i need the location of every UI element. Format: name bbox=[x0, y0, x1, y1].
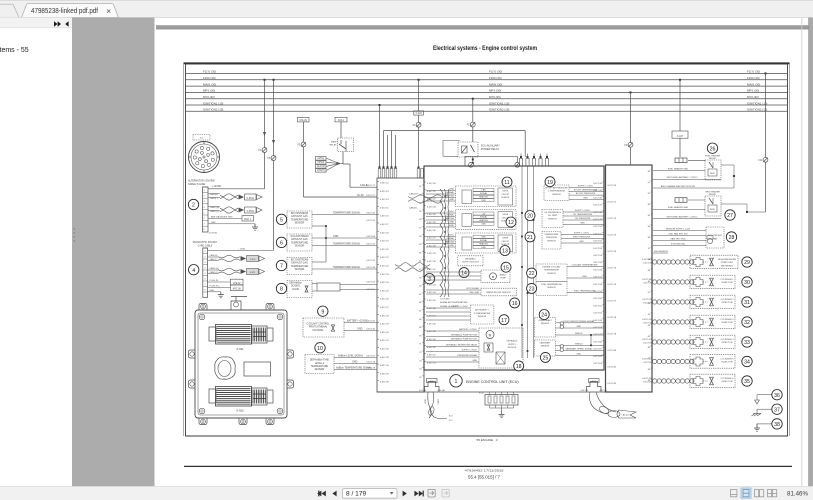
svg-text:GND: GND bbox=[352, 360, 358, 363]
can twist lower bbox=[395, 263, 430, 272]
svg-text:AdBlue LEVEL SIGNAL: AdBlue LEVEL SIGNAL bbox=[338, 354, 364, 357]
svg-text:VPS-B: VPS-B bbox=[317, 162, 324, 164]
svg-text:SENSOR: SENSOR bbox=[478, 316, 487, 318]
svg-text:DIAGNOSTIC SOCKET: DIAGNOSTIC SOCKET bbox=[193, 241, 218, 244]
svg-text:6.617-12: 6.617-12 bbox=[380, 183, 389, 185]
svg-text:6.617-46: 6.617-46 bbox=[427, 308, 436, 310]
svg-text:FUEL TEMPERATURE: FUEL TEMPERATURE bbox=[541, 283, 562, 286]
ecu module top lugs bbox=[199, 304, 207, 311]
svg-text:SWITCHED BATTERY +12VDC: SWITCHED BATTERY +12VDC bbox=[666, 215, 697, 218]
svg-text:86/85: 86/85 bbox=[710, 173, 715, 175]
svg-text:6.617: 6.617 bbox=[479, 392, 485, 394]
ecu top pin row bbox=[519, 159, 522, 167]
svg-text:HEATING: HEATING bbox=[445, 195, 454, 198]
callout 35 bbox=[742, 376, 752, 386]
svg-text:X-912: X-912 bbox=[236, 409, 244, 413]
svg-text:6.617-44: 6.617-44 bbox=[427, 292, 436, 294]
svg-text:F1(Y) (30): F1(Y) (30) bbox=[203, 70, 216, 74]
svg-text:TEMPERATURE: TEMPERATURE bbox=[311, 365, 329, 368]
wire block 24 row bbox=[556, 327, 605, 329]
svg-text:6.617-60: 6.617-60 bbox=[593, 298, 602, 300]
wire block 19 row bbox=[569, 199, 604, 201]
svg-text:PUMP: PUMP bbox=[500, 277, 506, 279]
svg-text:6.617-94: 6.617-94 bbox=[643, 362, 652, 364]
ecu sensor block 20 bbox=[542, 210, 563, 228]
svg-text:6.617-47: 6.617-47 bbox=[427, 316, 436, 318]
wire fuse to relay1 bbox=[688, 159, 705, 161]
svg-text:PRESSURE: PRESSURE bbox=[546, 237, 558, 239]
svg-text:6.617-19: 6.617-19 bbox=[380, 241, 389, 243]
svg-text:6.617-M: 6.617-M bbox=[581, 390, 589, 392]
svg-text:HTR SIGNAL: HTR SIGNAL bbox=[467, 287, 480, 290]
svg-text:6.617-25: 6.617-25 bbox=[380, 290, 389, 292]
callout 28 bbox=[726, 232, 736, 242]
sensor box 7 bbox=[287, 258, 312, 275]
svg-text:HEATING: HEATING bbox=[445, 241, 454, 244]
svg-text:+ 15/54: + 15/54 bbox=[238, 248, 246, 250]
svg-text:4: 4 bbox=[204, 268, 205, 270]
fuse F-A bbox=[262, 148, 267, 153]
ecu module outline bbox=[195, 310, 287, 418]
connector X-911 bbox=[209, 325, 273, 345]
layout icon continuous selected bbox=[741, 488, 751, 498]
svg-text:6.617-40: 6.617-40 bbox=[366, 329, 375, 331]
ecu sensor block 19 bbox=[544, 185, 569, 201]
svg-text:MPS (30): MPS (30) bbox=[747, 89, 759, 93]
ecu module bottom lugs bbox=[199, 418, 207, 425]
svg-text:4-97 (A): 4-97 (A) bbox=[600, 389, 608, 392]
svg-text:6.617-76: 6.617-76 bbox=[608, 284, 617, 286]
svg-text:6.617-54: 6.617-54 bbox=[593, 255, 602, 257]
pump motor M bbox=[490, 273, 497, 280]
ecu connector box B bbox=[606, 165, 653, 392]
svg-text:CARD CABLE: CARD CABLE bbox=[198, 244, 213, 247]
callout 4 bbox=[189, 265, 199, 275]
svg-text:GND: GND bbox=[481, 224, 486, 226]
svg-text:MT3 (30): MT3 (30) bbox=[489, 95, 501, 99]
signal ground node 37 bbox=[757, 408, 772, 410]
ecu sensor block 25 bbox=[535, 340, 556, 356]
svg-text:6.617-68: 6.617-68 bbox=[593, 356, 602, 358]
svg-text:SENSOR: SENSOR bbox=[541, 323, 550, 325]
svg-text:DEF/AdBlue: DEF/AdBlue bbox=[506, 340, 518, 343]
svg-text:6.617-113: 6.617-113 bbox=[642, 339, 652, 341]
svg-text:6.617-39: 6.617-39 bbox=[366, 267, 375, 269]
svg-text:CYLINDER 3: CYLINDER 3 bbox=[721, 319, 735, 321]
callout 10 bbox=[315, 343, 325, 353]
svg-text:Electrical systems - Engine co: Electrical systems - Engine control syst… bbox=[433, 45, 537, 52]
toolbar history fwd icon bbox=[442, 489, 449, 497]
svg-text:KL-30: KL-30 bbox=[357, 194, 364, 197]
callout 29 bbox=[742, 257, 752, 267]
svg-text:DEF/AdBlue: DEF/AdBlue bbox=[465, 258, 477, 261]
svg-text:6.617-13: 6.617-13 bbox=[380, 191, 389, 193]
callout 13 bbox=[500, 246, 510, 256]
svg-text:6.617-17: 6.617-17 bbox=[380, 224, 389, 226]
wire block 20 row bbox=[563, 219, 604, 221]
svg-text:8 / 179: 8 / 179 bbox=[346, 491, 366, 498]
svg-text:55.4 [55.015] / 7: 55.4 [55.015] / 7 bbox=[468, 475, 500, 481]
toolbar first page button bbox=[317, 491, 326, 497]
svg-text:CYLINDER 6: CYLINDER 6 bbox=[721, 378, 735, 380]
ecu connector box A bbox=[377, 178, 424, 392]
svg-text:6.617-29: 6.617-29 bbox=[380, 324, 389, 326]
svg-text:28: 28 bbox=[729, 235, 735, 241]
svg-text:6.617-62: 6.617-62 bbox=[593, 313, 602, 315]
svg-text:SENSOR: SENSOR bbox=[547, 273, 556, 275]
svg-text:6.617-31: 6.617-31 bbox=[427, 191, 436, 193]
svg-text:11: 11 bbox=[504, 180, 509, 186]
arrow tap A bbox=[263, 132, 266, 136]
svg-text:SWITCHED BATTERY +12VDC: SWITCHED BATTERY +12VDC bbox=[666, 176, 697, 179]
wire block 12 row bbox=[426, 223, 456, 225]
svg-text:6.617-72: 6.617-72 bbox=[608, 218, 617, 220]
sensor box 6 bbox=[287, 234, 312, 251]
svg-text:6.617-65: 6.617-65 bbox=[593, 334, 602, 336]
document pane top gap bar bbox=[156, 25, 809, 29]
arrow tap B bbox=[272, 140, 275, 144]
svg-text:SUPPLY +5VDC: SUPPLY +5VDC bbox=[578, 186, 594, 188]
gray divider strip bbox=[72, 18, 155, 487]
svg-text:6.617-32: 6.617-32 bbox=[366, 321, 375, 323]
svg-text:6.617-55: 6.617-55 bbox=[593, 262, 602, 264]
wire block 15 rows bbox=[426, 271, 481, 273]
sensor 8 valve body bbox=[317, 283, 340, 291]
circular connector X-1 bbox=[189, 135, 220, 173]
fuse grid heater bbox=[675, 198, 687, 203]
heater symbol bbox=[496, 352, 505, 364]
svg-text:MAIN (30): MAIN (30) bbox=[203, 82, 216, 86]
svg-text:SIGNAL: SIGNAL bbox=[480, 192, 488, 195]
svg-text:& TEMPERATURE: & TEMPERATURE bbox=[474, 312, 491, 315]
svg-text:ENGINE COOLANT: ENGINE COOLANT bbox=[543, 266, 562, 269]
svg-text:B/A UPSTREAM: B/A UPSTREAM bbox=[291, 212, 308, 215]
wire block 12 row bbox=[426, 216, 456, 218]
sensor box 5 bbox=[287, 211, 312, 228]
svg-text:GND: GND bbox=[579, 241, 584, 243]
ecu module corner bolts bbox=[199, 314, 205, 320]
svg-text:HIGH PRESSURE: HIGH PRESSURE bbox=[718, 259, 737, 261]
wire block 13 row bbox=[426, 236, 456, 238]
svg-text:DEF/AdBlue TANK: DEF/AdBlue TANK bbox=[310, 359, 330, 362]
callout 38 bbox=[772, 419, 782, 429]
left bookmarks panel bbox=[0, 18, 72, 487]
ecu module side lugs bbox=[189, 350, 196, 358]
svg-text:TEMPERATURE: TEMPERATURE bbox=[544, 269, 560, 272]
svg-text:6.617-57: 6.617-57 bbox=[593, 277, 602, 279]
bus wire MPS (30) bbox=[186, 91, 788, 93]
toolbar next button bbox=[403, 491, 407, 497]
svg-text:6.617-43: 6.617-43 bbox=[427, 284, 436, 286]
wire block 12 row bbox=[426, 212, 456, 214]
wire block 23 row bbox=[567, 292, 604, 294]
svg-text:OIL PRESSURE &: OIL PRESSURE & bbox=[544, 212, 561, 214]
svg-text:47936452 17/11/2015: 47936452 17/11/2015 bbox=[465, 469, 504, 473]
connector 4 strip bbox=[203, 248, 208, 297]
ecu internal block 18 def supply bbox=[479, 328, 523, 368]
svg-text:GND: GND bbox=[576, 353, 581, 355]
svg-text:6.617-19: 6.617-19 bbox=[366, 368, 375, 370]
svg-text:TEMPERATURE SIGNAL: TEMPERATURE SIGNAL bbox=[333, 243, 361, 246]
callout 2 bbox=[188, 199, 198, 209]
connector X-97 plug bbox=[587, 382, 602, 393]
svg-text:47985238-linked pdf.pdf: 47985238-linked pdf.pdf bbox=[31, 6, 99, 15]
drawing frame bbox=[186, 64, 788, 436]
svg-text:F100 (30): F100 (30) bbox=[747, 76, 760, 80]
wire block 12 row bbox=[426, 226, 456, 228]
callout 25 bbox=[540, 352, 550, 362]
svg-text:6.617-53: 6.617-53 bbox=[366, 282, 375, 284]
wire relay1 right bbox=[721, 164, 734, 166]
svg-text:HOUSING: HOUSING bbox=[313, 330, 324, 332]
svg-text:BATTERY +12VDC: BATTERY +12VDC bbox=[347, 319, 368, 322]
speed sensor symbol bbox=[707, 238, 712, 243]
callout 11 bbox=[502, 177, 512, 187]
wire block 24 row bbox=[556, 334, 605, 336]
svg-text:1: 1 bbox=[204, 251, 205, 253]
svg-text:6.617-35: 6.617-35 bbox=[427, 222, 436, 224]
ecu internal block 17 bbox=[470, 305, 494, 324]
svg-text:DRIVE: DRIVE bbox=[502, 238, 509, 240]
callout 22 bbox=[527, 268, 537, 278]
svg-text:MPS (30): MPS (30) bbox=[489, 89, 501, 93]
svg-text:EXHAUST GAS: EXHAUST GAS bbox=[291, 262, 308, 265]
svg-text:MPS (30): MPS (30) bbox=[203, 89, 215, 93]
svg-text:6: 6 bbox=[204, 279, 205, 281]
svg-text:CAN: CAN bbox=[481, 189, 486, 192]
grid heater relay bbox=[705, 196, 721, 216]
svg-text:systems - 55: systems - 55 bbox=[0, 47, 29, 54]
wire block 13 row bbox=[426, 246, 456, 248]
svg-text:27: 27 bbox=[727, 213, 733, 219]
svg-text:CAMSHAFT: CAMSHAFT bbox=[540, 342, 552, 345]
svg-text:81.46%: 81.46% bbox=[787, 490, 808, 497]
svg-text:6.617-47: 6.617-47 bbox=[593, 205, 602, 207]
svg-text:IGNITION1 (15): IGNITION1 (15) bbox=[203, 101, 223, 105]
svg-text:6.617-28: 6.617-28 bbox=[380, 315, 389, 317]
svg-text:INJECTOR: INJECTOR bbox=[722, 302, 733, 304]
footer rule bbox=[184, 465, 792, 467]
svg-text:DEF/AdBlue REVERTING VALVE: DEF/AdBlue REVERTING VALVE bbox=[446, 344, 478, 347]
callout 15 bbox=[501, 262, 511, 272]
ecu internal block 13 bbox=[456, 233, 517, 253]
svg-text:SIGNAL AIR TEMPERATURE: SIGNAL AIR TEMPERATURE bbox=[440, 301, 468, 304]
svg-text:FAN: FAN bbox=[713, 237, 718, 240]
svg-text:6.617-30: 6.617-30 bbox=[427, 183, 436, 185]
relay2 rows bbox=[653, 208, 705, 210]
svg-text:6.617-32: 6.617-32 bbox=[380, 349, 389, 351]
svg-text:DEF/AdBlue: DEF/AdBlue bbox=[289, 282, 302, 285]
svg-text:SUPPLY: SUPPLY bbox=[508, 344, 516, 346]
svg-text:METERING: METERING bbox=[721, 265, 733, 267]
svg-text:DRIVE: DRIVE bbox=[502, 214, 509, 216]
svg-text:6.617-51: 6.617-51 bbox=[593, 233, 602, 235]
svg-text:6.617-17: 6.617-17 bbox=[366, 185, 375, 187]
svg-text:6.617-111: 6.617-111 bbox=[642, 299, 652, 301]
svg-text:6.617-27: 6.617-27 bbox=[380, 307, 389, 309]
ecu internal block 15 bbox=[481, 270, 510, 283]
svg-text:+ 12VDC: + 12VDC bbox=[212, 185, 222, 188]
svg-text:4-070704: 4-070704 bbox=[209, 232, 218, 234]
engine control unit box bbox=[424, 166, 604, 370]
svg-text:17: 17 bbox=[501, 318, 507, 324]
svg-text:6.617-31: 6.617-31 bbox=[380, 340, 389, 342]
svg-text:HEATING: HEATING bbox=[479, 219, 488, 222]
ecu internal supply rails bbox=[521, 166, 523, 358]
svg-text:6.617-49: 6.617-49 bbox=[427, 331, 436, 333]
svg-text:N.O: N.O bbox=[449, 416, 453, 418]
callout 30 bbox=[742, 277, 752, 287]
wire block 13 row bbox=[426, 239, 456, 241]
box A top pins bbox=[378, 169, 381, 179]
connector X-047 box bbox=[672, 131, 688, 138]
svg-text:SUPPLY +5VDC: SUPPLY +5VDC bbox=[575, 210, 591, 212]
wire X-045 drop bbox=[303, 122, 305, 197]
svg-text:CABLE T-CASE: CABLE T-CASE bbox=[188, 183, 205, 186]
svg-text:X-0515: X-0515 bbox=[247, 211, 255, 213]
svg-text:F100 (30): F100 (30) bbox=[203, 76, 216, 80]
svg-text:6.617-49: 6.617-49 bbox=[593, 219, 602, 221]
svg-text:38: 38 bbox=[774, 422, 780, 428]
svg-text:6.617-50: 6.617-50 bbox=[427, 339, 436, 341]
module seal gasket bbox=[215, 357, 236, 379]
svg-text:6.617-39: 6.617-39 bbox=[427, 253, 436, 255]
svg-text:31: 31 bbox=[744, 300, 750, 306]
svg-text:6.617-95: 6.617-95 bbox=[643, 381, 652, 383]
svg-text:7: 7 bbox=[204, 284, 205, 286]
pigtail right with arrow bbox=[590, 392, 609, 414]
svg-text:6.617-50: 6.617-50 bbox=[593, 226, 602, 228]
svg-text:6.617-44: 6.617-44 bbox=[593, 183, 602, 185]
svg-text:6.617-59: 6.617-59 bbox=[593, 291, 602, 293]
bus wire F1(Y) (30) bbox=[186, 72, 788, 74]
svg-text:GND: GND bbox=[424, 399, 426, 404]
tab bar bbox=[0, 0, 813, 18]
svg-text:6.617-46: 6.617-46 bbox=[593, 197, 602, 199]
svg-text:6.617-21: 6.617-21 bbox=[380, 257, 389, 259]
bus wire IGNITION2 (15) bbox=[186, 110, 788, 112]
pump motor symbol bbox=[486, 331, 494, 339]
callout 23 bbox=[527, 283, 537, 293]
fuel heater relay bbox=[705, 160, 721, 180]
svg-text:GND: GND bbox=[582, 276, 587, 278]
svg-text:6.617-36: 6.617-36 bbox=[427, 230, 436, 232]
svg-text:FUEL PRESSURE: FUEL PRESSURE bbox=[573, 237, 591, 239]
connector 2 strip bbox=[203, 187, 209, 232]
wire block 11 row bbox=[426, 190, 456, 192]
svg-text:15: 15 bbox=[503, 265, 509, 271]
svg-text:18: 18 bbox=[516, 364, 522, 370]
wire plus-15-54 row bbox=[208, 250, 274, 252]
svg-text:6.617-52: 6.617-52 bbox=[366, 220, 375, 222]
svg-text:DEF/AdBlue PUMP MOTOR: DEF/AdBlue PUMP MOTOR bbox=[451, 338, 478, 341]
svg-text:GND: GND bbox=[481, 247, 486, 249]
callout 8 bbox=[276, 283, 286, 293]
svg-text:33: 33 bbox=[744, 340, 750, 346]
ecu internal block 12 bbox=[456, 210, 517, 230]
wire relay to ecu pins bbox=[472, 157, 474, 166]
right box fused drop bbox=[630, 91, 632, 93]
wire block 20 row bbox=[563, 211, 604, 213]
svg-text:CIRCUIT: CIRCUIT bbox=[501, 241, 510, 243]
svg-text:6.617-20: 6.617-20 bbox=[380, 249, 389, 251]
svg-text:LEVEL &: LEVEL & bbox=[315, 363, 325, 365]
callout 3 bbox=[424, 274, 434, 284]
svg-text:6.617-48: 6.617-48 bbox=[427, 323, 436, 325]
wire block 25 row bbox=[556, 354, 605, 356]
svg-text:GND: GND bbox=[449, 225, 454, 227]
wire block 25 row bbox=[556, 344, 605, 346]
svg-text:6.617-15: 6.617-15 bbox=[380, 207, 389, 209]
svg-text:6.617-91: 6.617-91 bbox=[643, 302, 652, 304]
svg-text:6.617-53: 6.617-53 bbox=[593, 248, 602, 250]
ecu auxiliary power relay bbox=[458, 142, 478, 157]
wire block 11 row bbox=[426, 197, 456, 199]
svg-text:6.617-64: 6.617-64 bbox=[593, 327, 602, 329]
svg-text:X24-1: X24-1 bbox=[338, 120, 345, 122]
svg-text:6.617-109: 6.617-109 bbox=[642, 259, 653, 261]
svg-text:FUEL HEATER GND: FUEL HEATER GND bbox=[668, 167, 689, 170]
callout 6 bbox=[276, 237, 286, 247]
svg-text:B/C DNSTREAM: B/C DNSTREAM bbox=[291, 259, 308, 262]
callout 24 bbox=[539, 310, 549, 320]
svg-text:SUPPLY +5VDC: SUPPLY +5VDC bbox=[453, 306, 469, 308]
svg-text:86/85: 86/85 bbox=[710, 209, 715, 211]
svg-text:1: 1 bbox=[455, 379, 458, 385]
svg-text:DIMENSIONAL: DIMENSIONAL bbox=[545, 233, 560, 236]
crank sensor coil bbox=[560, 322, 563, 325]
svg-text:5: 5 bbox=[204, 273, 205, 275]
wire relay left branch bbox=[443, 139, 460, 141]
svg-text:6.617-40: 6.617-40 bbox=[427, 261, 436, 263]
svg-text:26: 26 bbox=[710, 146, 716, 152]
wire sensor 10 temp bbox=[334, 369, 377, 371]
svg-text:F1(Y) (30): F1(Y) (30) bbox=[489, 70, 502, 74]
svg-text:16: 16 bbox=[512, 301, 518, 307]
center ground bbox=[499, 411, 505, 418]
injector block 30 bbox=[652, 275, 735, 289]
svg-text:GND: GND bbox=[449, 245, 454, 247]
svg-text:CA1 (D): CA1 (D) bbox=[622, 414, 629, 417]
callout 21 bbox=[525, 232, 535, 242]
svg-text:PUMP FUEL: PUMP FUEL bbox=[721, 262, 734, 264]
svg-text:SENSOR SUPPLY (+5V): SENSOR SUPPLY (+5V) bbox=[666, 229, 691, 231]
svg-text:5: 5 bbox=[280, 218, 283, 224]
module label plate bbox=[244, 362, 271, 376]
ecu sensor block 22 bbox=[536, 264, 567, 282]
svg-text:EXHAUST GAS: EXHAUST GAS bbox=[291, 215, 308, 218]
svg-text:F100 (30): F100 (30) bbox=[489, 76, 502, 80]
svg-text:GRID HEATER: GRID HEATER bbox=[705, 190, 720, 193]
svg-text:CAN-B L: CAN-B L bbox=[409, 207, 418, 210]
callout 17 bbox=[499, 315, 509, 325]
center connector gnd wires bbox=[489, 405, 491, 408]
wire sensor 10 gnd bbox=[334, 363, 377, 365]
svg-text:TEMPERATURE SIGNAL: TEMPERATURE SIGNAL bbox=[333, 266, 361, 269]
svg-text:6.617-77: 6.617-77 bbox=[608, 301, 617, 303]
svg-text:6.617-52: 6.617-52 bbox=[427, 355, 436, 357]
can twist upper bbox=[408, 195, 442, 203]
svg-text:HEATING: HEATING bbox=[445, 217, 454, 220]
layout icon single bbox=[731, 490, 737, 497]
wire block 22 row bbox=[567, 277, 604, 279]
injector block 29 bbox=[652, 255, 738, 269]
right window band bbox=[801, 18, 803, 487]
callout 26 bbox=[707, 143, 717, 153]
svg-text:CXL(A): CXL(A) bbox=[299, 119, 307, 122]
svg-text:RELAY: RELAY bbox=[709, 193, 717, 196]
svg-text:6.617-32: 6.617-32 bbox=[427, 199, 436, 201]
